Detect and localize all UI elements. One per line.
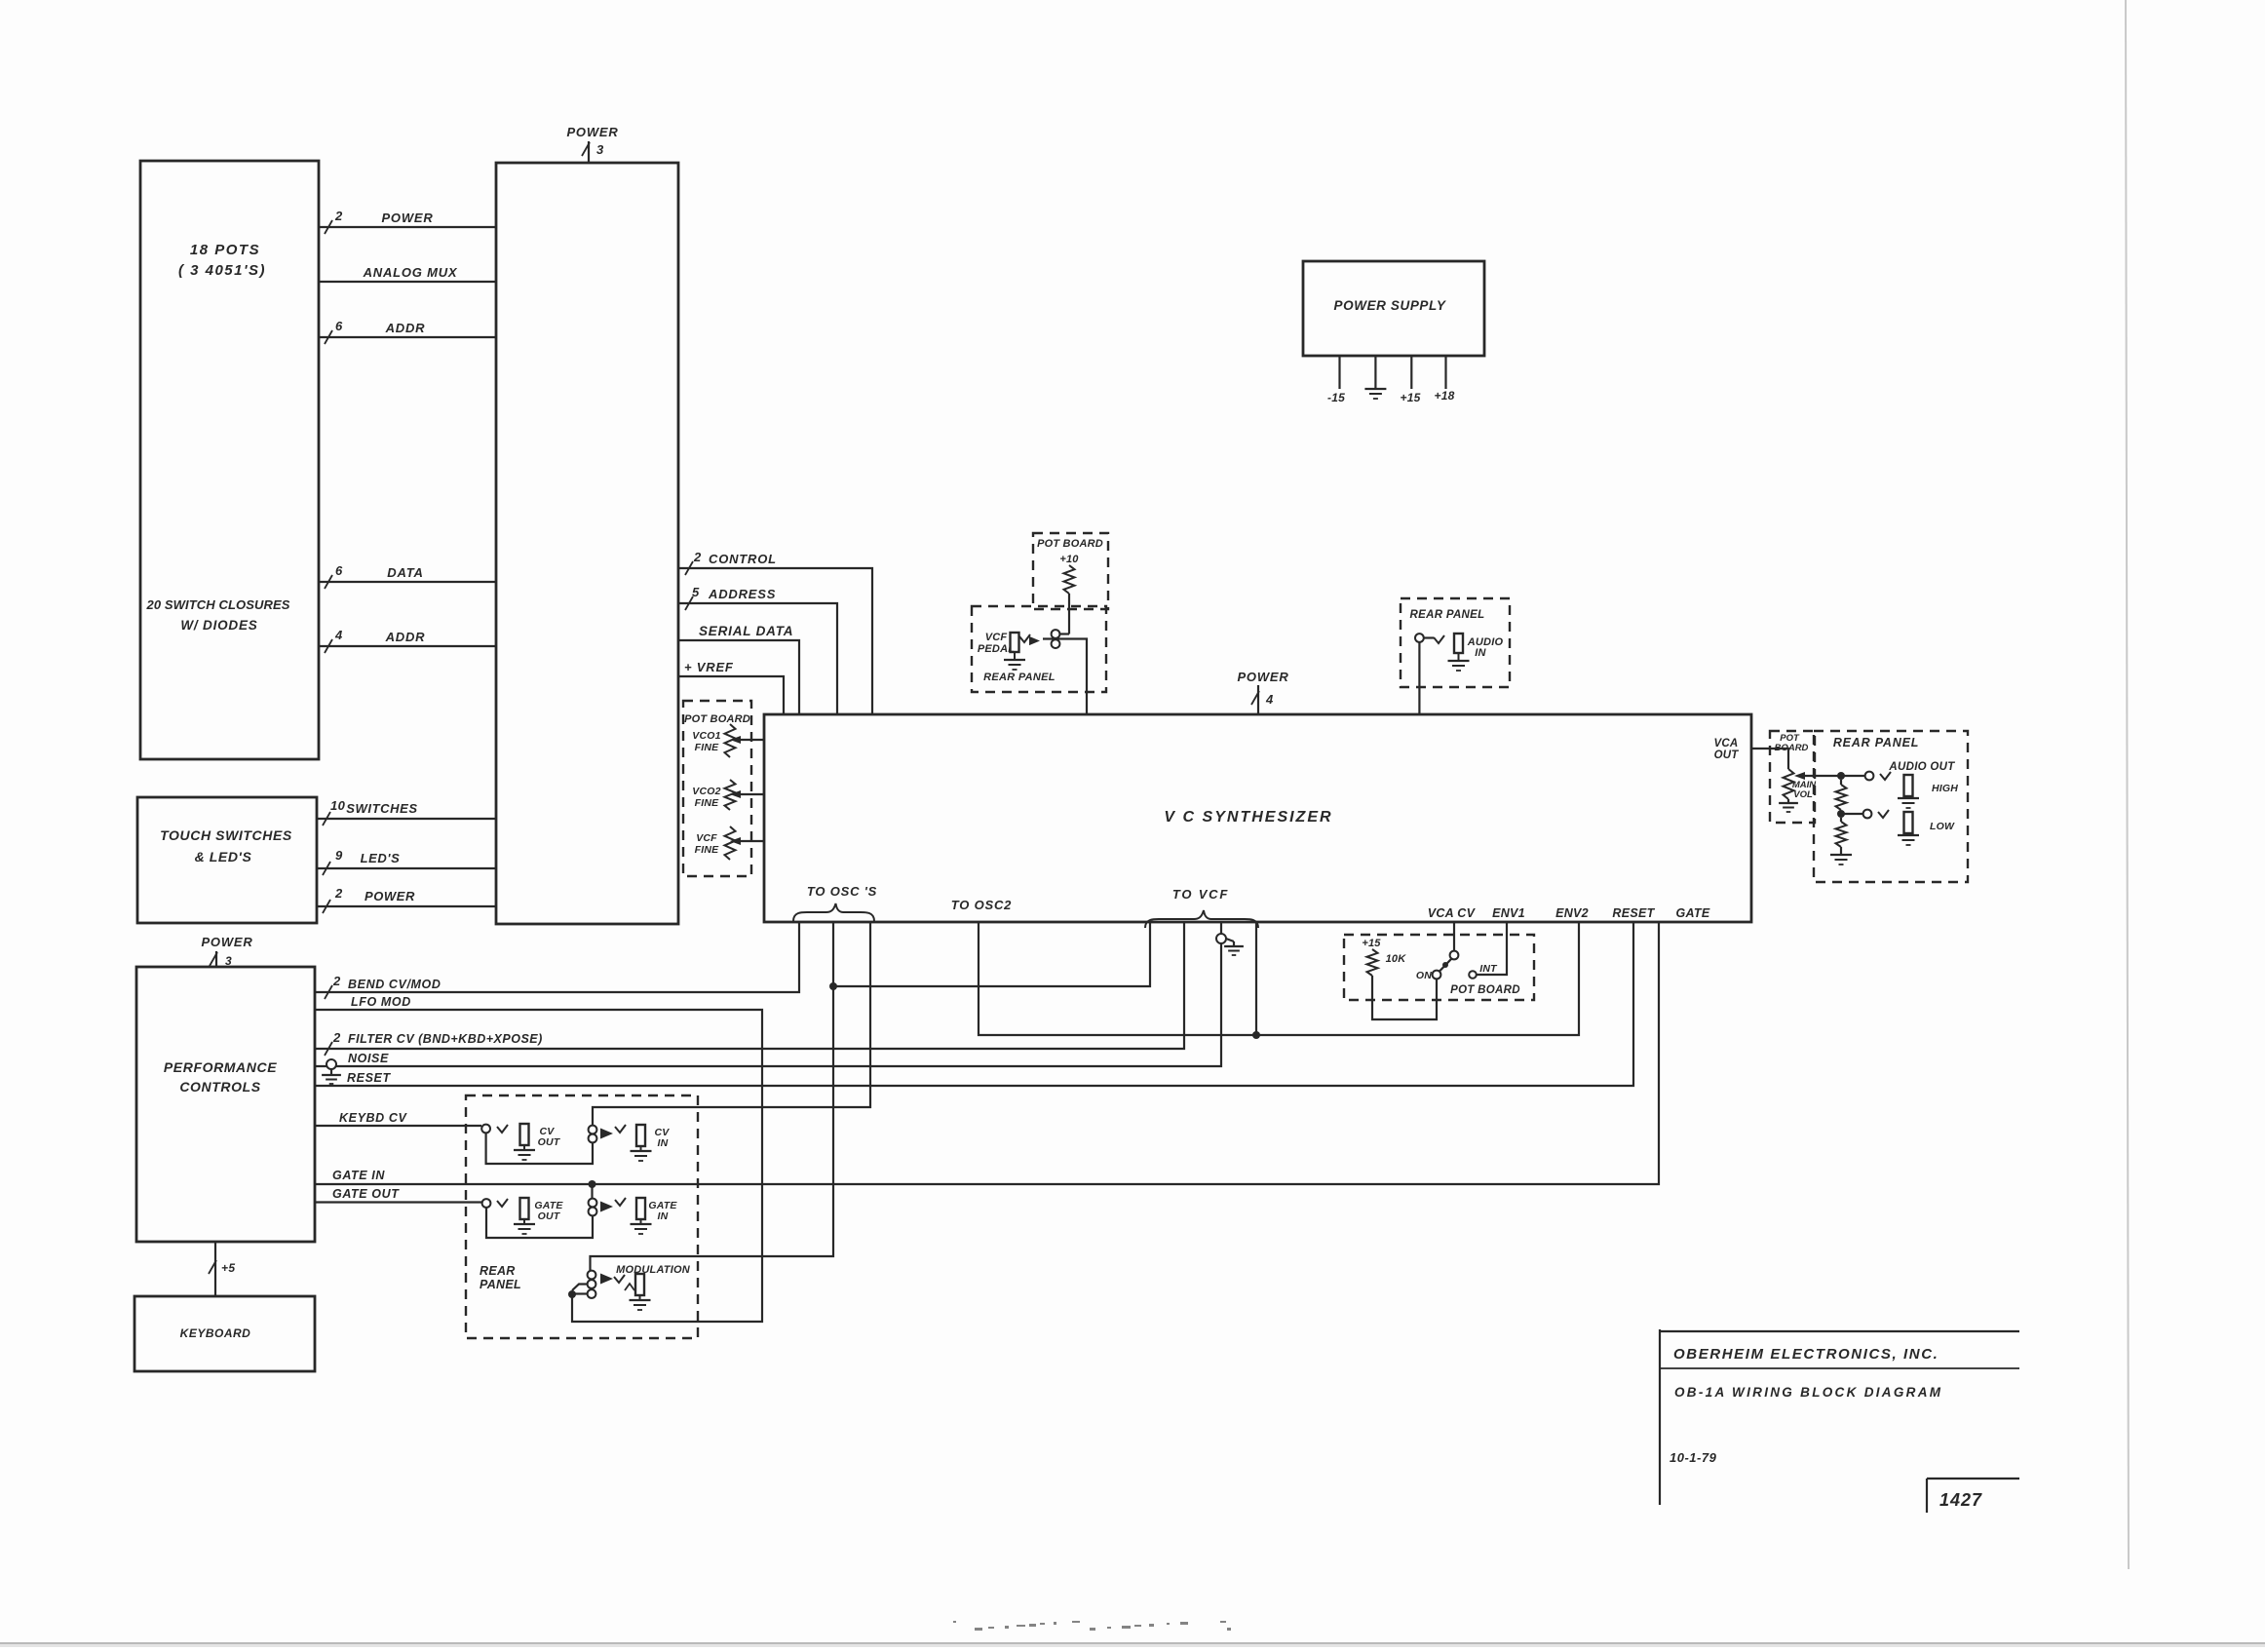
power arrow (4) on synthesizer top — [1237, 670, 1288, 714]
svg-text:2: 2 — [334, 209, 343, 223]
wire +5 performance controls to keyboard — [209, 1242, 235, 1296]
svg-text:OUT: OUT — [538, 1136, 561, 1148]
svg-text:RESET: RESET — [1612, 906, 1655, 920]
label KEYBOARD — [180, 1326, 251, 1340]
jack tip check VCF pedal — [1019, 634, 1030, 642]
jack CV IN switch contacts — [589, 1126, 597, 1143]
svg-text:10: 10 — [330, 798, 346, 813]
dashed box: pot board (main vol) — [1770, 731, 1815, 823]
jack CV OUT check — [497, 1125, 508, 1133]
wire BEND CV/MOD (2) — [315, 922, 799, 999]
wiper arrow main vol — [1794, 772, 1841, 780]
svg-text:ANALOG MUX: ANALOG MUX — [363, 265, 458, 280]
wire SWITCHES (10) to mux — [317, 798, 496, 826]
svg-text:PERFORMANCE: PERFORMANCE — [164, 1059, 277, 1075]
junction dot osc mod / to-vcf link — [829, 982, 837, 990]
jack CV OUT tip contact — [481, 1125, 490, 1133]
jack GATE IN triangle and check — [600, 1198, 626, 1211]
svg-text:+18: +18 — [1435, 389, 1455, 403]
label GATE OUT — [534, 1200, 563, 1222]
svg-text:+5: +5 — [221, 1261, 235, 1275]
svg-text:BOARD: BOARD — [1775, 743, 1809, 753]
title OB-1A WIRING BLOCK DIAGRAM — [1674, 1385, 1942, 1400]
svg-text:OB-1A WIRING BLOCK DIAGRAM: OB-1A WIRING BLOCK DIAGRAM — [1674, 1385, 1942, 1400]
label +15 — [1362, 938, 1381, 949]
wire FILTER CV (2) — [315, 922, 1184, 1056]
pot VCO1 FINE — [692, 724, 735, 757]
svg-text:DATA: DATA — [387, 565, 423, 580]
svg-text:REAR PANEL: REAR PANEL — [983, 672, 1056, 683]
svg-text:GATE IN: GATE IN — [332, 1169, 385, 1182]
jack LOW check — [1878, 810, 1889, 818]
svg-text:ON: ON — [1416, 970, 1432, 981]
jack tip contact audio in — [1415, 634, 1424, 642]
resistor from +10 — [1060, 565, 1075, 634]
jack CV OUT — [514, 1124, 535, 1160]
svg-text:ADDRESS: ADDRESS — [708, 587, 776, 601]
svg-text:W/ DIODES: W/ DIODES — [180, 618, 257, 633]
jack GATE IN — [631, 1198, 652, 1234]
bottom scan band — [0, 1643, 2265, 1647]
wire arrow synth to VCO1 FINE — [730, 736, 764, 744]
wire audio in jack to synth — [1418, 642, 1420, 714]
pot VCO2 FINE — [692, 780, 735, 810]
svg-text:6: 6 — [335, 319, 343, 333]
title date 10-1-79 — [1670, 1450, 1717, 1465]
svg-text:10-1-79: 10-1-79 — [1670, 1450, 1717, 1465]
wire INT contact to ENV1 — [1477, 922, 1507, 975]
label (3 4051'S) — [178, 262, 266, 279]
svg-text:AUDIO OUT: AUDIO OUT — [1888, 761, 1955, 773]
block: 18 pots / 20 switch closures panel — [140, 161, 319, 759]
label REAR PANEL (audio out) — [1833, 736, 1919, 749]
label MODULATION — [616, 1264, 691, 1276]
block: mux/computer board — [496, 163, 678, 924]
svg-text:KEYBOARD: KEYBOARD — [180, 1326, 251, 1340]
label MAIN VOL — [1792, 780, 1817, 800]
wire NOISE with shield — [315, 922, 1221, 1084]
jack GATE OUT — [514, 1198, 535, 1234]
junction dot ENV2 to VCF — [1252, 1031, 1260, 1039]
junction dot modulation switch — [568, 1290, 576, 1298]
svg-text:GATE OUT: GATE OUT — [332, 1187, 400, 1201]
pin label ENV2 — [1555, 906, 1589, 920]
wire CV OUT to CV IN switch — [486, 1133, 593, 1164]
wire modulation switch contact link — [572, 1285, 588, 1294]
wire to VCF input 4 — [1255, 922, 1257, 1035]
jack CV IN triangle and check — [600, 1125, 626, 1138]
jack AUDIO IN — [1448, 634, 1470, 671]
svg-text:2: 2 — [334, 886, 343, 901]
label 20 SWITCH CLOSURES — [146, 597, 290, 612]
pin label VCA CV — [1428, 906, 1477, 920]
label CV OUT — [538, 1126, 561, 1148]
svg-text:VCA: VCA — [1714, 738, 1739, 749]
label & LED'S — [195, 849, 252, 864]
svg-text:3: 3 — [596, 142, 604, 157]
svg-text:+15: +15 — [1401, 391, 1421, 404]
svg-text:TO VCF: TO VCF — [1172, 887, 1229, 902]
jack LOW tip contact — [1863, 810, 1872, 819]
svg-text:IN: IN — [658, 1137, 669, 1149]
jack HIGH tip contact — [1865, 772, 1874, 781]
svg-text:REAR: REAR — [480, 1264, 516, 1278]
wire arrow synth to VCF FINE — [730, 837, 764, 845]
label VCA OUT — [1714, 738, 1740, 761]
drawing number 1427 — [1939, 1490, 1982, 1510]
jack HIGH — [1898, 775, 1919, 808]
svg-text:HIGH: HIGH — [1932, 783, 1958, 794]
svg-text:+15: +15 — [1362, 938, 1381, 949]
svg-text:OBERHEIM ELECTRONICS, INC.: OBERHEIM ELECTRONICS, INC. — [1673, 1346, 1939, 1363]
squiggle modulation — [625, 1284, 634, 1290]
wire KEYBD CV — [315, 1111, 481, 1126]
svg-text:5: 5 — [692, 585, 700, 599]
wire VCA CV from synth — [1453, 922, 1455, 951]
svg-text:IN: IN — [1475, 647, 1486, 659]
dashed box: rear panel audio out — [1814, 731, 1968, 882]
pin label GATE — [1676, 906, 1710, 920]
svg-text:REAR PANEL: REAR PANEL — [1410, 609, 1485, 621]
shield contact on noise line at synth — [1216, 934, 1244, 955]
jack HIGH check — [1880, 772, 1891, 780]
switch contact INT — [1469, 963, 1498, 979]
junction dot divider mid — [1837, 810, 1845, 818]
svg-text:+ VREF: + VREF — [684, 660, 734, 674]
wire VCA OUT to volume pot — [1751, 749, 1788, 769]
svg-text:LOW: LOW — [1930, 821, 1955, 832]
jack GATE OUT tip contact — [482, 1199, 491, 1208]
label LOW — [1930, 821, 1955, 832]
wire LED'S (9) to mux — [317, 848, 496, 875]
svg-text:CONTROL: CONTROL — [709, 552, 777, 566]
block: touch switches and LEDs — [137, 797, 317, 923]
svg-text:POWER: POWER — [1237, 670, 1288, 684]
svg-text:TO OSC 'S: TO OSC 'S — [807, 884, 877, 899]
label CONTROLS — [179, 1079, 260, 1095]
label CV IN — [655, 1127, 671, 1149]
dashed box: pot board +10 — [1033, 533, 1108, 609]
svg-text:ADDR: ADDR — [385, 630, 426, 644]
svg-text:ADDR: ADDR — [385, 321, 426, 335]
label +10 — [1059, 554, 1079, 565]
wire ON contact to 10K — [1372, 976, 1437, 1019]
label POWER SUPPLY — [1334, 298, 1447, 313]
jack MODULATION contacts — [588, 1271, 596, 1298]
wire DATA (6) — [319, 563, 496, 589]
dashed box: rear panel audio in — [1401, 598, 1510, 687]
wire RESET — [315, 922, 1633, 1086]
svg-text:CONTROLS: CONTROLS — [179, 1079, 260, 1095]
svg-text:VCA CV: VCA CV — [1428, 906, 1477, 920]
svg-text:FINE: FINE — [695, 844, 720, 856]
svg-text:IN: IN — [658, 1210, 669, 1222]
svg-text:POT BOARD: POT BOARD — [1037, 538, 1103, 550]
label HIGH — [1932, 783, 1958, 794]
wire POWER (2) to mux — [317, 886, 496, 913]
label REAR PANEL (jacks) — [480, 1264, 521, 1291]
wire arrow synth to VCO2 FINE — [730, 790, 764, 798]
svg-text:POWER SUPPLY: POWER SUPPLY — [1334, 298, 1447, 313]
svg-text:RESET: RESET — [347, 1071, 391, 1085]
svg-text:FILTER CV (BND+KBD+XPOSE): FILTER CV (BND+KBD+XPOSE) — [348, 1032, 543, 1046]
pot VCF FINE — [695, 826, 736, 860]
svg-text:KEYBD CV: KEYBD CV — [339, 1111, 407, 1125]
dashed box: rear panel jacks — [466, 1095, 698, 1338]
svg-text:ENV2: ENV2 — [1555, 906, 1589, 920]
svg-text:BEND CV/MOD: BEND CV/MOD — [348, 978, 441, 991]
svg-text:POWER: POWER — [381, 211, 433, 225]
scanner noise specks — [953, 1621, 1231, 1631]
wire POWER (2) pots to mux — [319, 209, 496, 234]
wire +VREF mux to synth — [678, 660, 784, 714]
svg-text:POT BOARD: POT BOARD — [1450, 984, 1520, 996]
svg-text:4: 4 — [1265, 692, 1274, 707]
junction dot gate in to jack — [589, 1180, 596, 1188]
title OBERHEIM ELECTRONICS, INC. — [1673, 1346, 1939, 1363]
svg-text:TO OSC2: TO OSC2 — [951, 898, 1012, 912]
svg-text:VCO1: VCO1 — [692, 730, 720, 742]
svg-text:VCF: VCF — [985, 632, 1008, 643]
power arrow above performance controls — [201, 935, 252, 968]
label GATE IN — [648, 1200, 677, 1222]
switch lever — [1440, 959, 1452, 972]
svg-text:& LED'S: & LED'S — [195, 849, 252, 864]
block: performance controls — [136, 967, 315, 1242]
svg-text:LFO MOD: LFO MOD — [351, 995, 411, 1009]
divider resistor upper — [1836, 780, 1847, 810]
svg-text:6: 6 — [335, 563, 343, 578]
label POT BOARD (+10) — [1037, 538, 1103, 550]
svg-text:POWER: POWER — [566, 125, 618, 139]
power supply pin -15 — [1327, 356, 1345, 404]
divider resistor lower — [1830, 818, 1852, 864]
svg-text:+10: +10 — [1059, 554, 1079, 565]
svg-text:OUT: OUT — [1714, 749, 1740, 761]
wire GATE OUT — [315, 1187, 482, 1203]
svg-text:POWER: POWER — [365, 889, 415, 903]
wire SERIAL DATA mux to synth — [678, 624, 799, 714]
label PERFORMANCE — [164, 1059, 277, 1075]
svg-text:V C SYNTHESIZER: V C SYNTHESIZER — [1164, 809, 1332, 826]
jack GATE OUT check — [497, 1199, 508, 1207]
pin label RESET — [1612, 906, 1655, 920]
svg-text:1427: 1427 — [1939, 1490, 1982, 1510]
svg-text:VCO2: VCO2 — [692, 786, 720, 797]
pin label ENV1 — [1492, 906, 1525, 920]
brace TO OSC'S — [793, 884, 877, 921]
svg-text:4: 4 — [334, 628, 343, 642]
wire LFO MOD — [315, 995, 762, 1322]
label VCF PEDAL — [978, 632, 1015, 655]
svg-text:10K: 10K — [1386, 953, 1407, 965]
label POT BOARD (main vol) — [1775, 733, 1809, 753]
svg-text:GATE: GATE — [1676, 906, 1710, 920]
svg-text:MODULATION: MODULATION — [616, 1264, 691, 1276]
label TOUCH SWITCHES — [160, 827, 292, 843]
svg-text:POT BOARD: POT BOARD — [684, 713, 750, 725]
jack MODULATION — [630, 1274, 651, 1310]
svg-text:PANEL: PANEL — [480, 1278, 521, 1291]
wire ADDR (6) — [319, 319, 496, 344]
svg-text:LED'S: LED'S — [361, 851, 401, 865]
svg-text:POWER: POWER — [201, 935, 252, 949]
svg-text:FINE: FINE — [695, 742, 720, 753]
wire ENV2 to OSC2 and VCF — [979, 922, 1579, 1035]
title block border — [1660, 1329, 2019, 1505]
power supply pin +15 — [1401, 356, 1421, 404]
label V C SYNTHESIZER — [1164, 809, 1332, 826]
label POT BOARD — [684, 713, 750, 725]
wire divider to LOW jack — [1841, 813, 1863, 815]
wire ANALOG MUX — [319, 265, 496, 282]
jack switch contacts VCF pedal — [1052, 630, 1060, 648]
switch contact NC (vca cv) — [1450, 951, 1459, 960]
svg-text:ENV1: ENV1 — [1492, 906, 1525, 920]
wire VCF pedal to synth — [1043, 639, 1087, 715]
svg-text:REAR PANEL: REAR PANEL — [1833, 736, 1919, 749]
wire ADDR (4) — [319, 628, 496, 653]
svg-text:( 3 4051'S): ( 3 4051'S) — [178, 262, 266, 279]
label REAR PANEL (audio in) — [1410, 609, 1485, 621]
dashed box: rear panel VCF pedal — [972, 606, 1106, 692]
svg-text:20 SWITCH CLOSURES: 20 SWITCH CLOSURES — [146, 597, 290, 612]
jack GATE IN switch contacts — [589, 1199, 597, 1216]
block: keyboard — [134, 1296, 315, 1371]
label AUDIO OUT — [1888, 761, 1955, 773]
wire CONTROL (2) mux to synth — [678, 550, 872, 714]
wire to VCF input 1 — [833, 922, 1150, 986]
dashed box: pot board (fine pots) — [683, 701, 751, 876]
block: power supply — [1303, 261, 1484, 356]
block: VC synthesizer — [764, 714, 1751, 922]
wire modulation jack to oscillators — [591, 922, 834, 1271]
jack CV IN — [631, 1125, 652, 1161]
svg-text:3: 3 — [225, 954, 232, 968]
wire ADDRESS (5) mux to synth — [678, 585, 837, 714]
junction dot wiper to jacks — [1837, 772, 1845, 780]
svg-text:2: 2 — [332, 974, 341, 988]
svg-text:VOL: VOL — [1793, 789, 1813, 800]
wire CV IN jack to oscillators — [593, 922, 870, 1126]
jack MODULATION triangle and check — [600, 1274, 625, 1285]
power supply pin +18 — [1435, 356, 1455, 403]
paper edge line — [2126, 0, 2129, 1569]
label REAR PANEL (vcf pedal) — [983, 672, 1056, 683]
svg-text:VCF: VCF — [696, 832, 717, 844]
power arrow at top of mux board — [566, 125, 618, 163]
label W/ DIODES — [180, 618, 257, 633]
drawing number box — [1927, 1479, 2019, 1513]
svg-text:OUT: OUT — [538, 1210, 561, 1222]
label AUDIO IN — [1467, 636, 1504, 659]
svg-text:SERIAL DATA: SERIAL DATA — [699, 624, 793, 638]
wire GATE IN — [315, 922, 1659, 1184]
label POT BOARD (switch) — [1450, 984, 1520, 996]
wire wiper to HIGH jack — [1841, 775, 1865, 777]
svg-text:18 POTS: 18 POTS — [190, 242, 260, 258]
power supply ground pin — [1364, 356, 1386, 399]
pot MAIN VOL — [1779, 769, 1798, 812]
label 18 POTS — [190, 242, 260, 258]
jack switch triangle VCF pedal — [1029, 636, 1040, 645]
svg-text:NOISE: NOISE — [348, 1052, 389, 1065]
svg-text:-15: -15 — [1327, 391, 1345, 404]
resistor 10K — [1367, 949, 1407, 976]
wire GATE OUT to GATE IN switch — [486, 1208, 593, 1238]
dashed box: pot board (vca cv switch) — [1344, 935, 1534, 1000]
svg-text:9: 9 — [335, 848, 343, 863]
svg-text:2: 2 — [332, 1030, 341, 1045]
label TO OSC2 — [951, 898, 1012, 912]
jack tip check audio in — [1424, 635, 1444, 643]
svg-text:SWITCHES: SWITCHES — [346, 801, 417, 816]
brace TO VCF — [1145, 887, 1258, 928]
svg-text:TOUCH SWITCHES: TOUCH SWITCHES — [160, 827, 292, 843]
switch contact ON — [1416, 970, 1440, 981]
svg-text:2: 2 — [693, 550, 702, 564]
svg-text:FINE: FINE — [695, 797, 720, 809]
wire gate in jack riser — [591, 1184, 593, 1199]
jack LOW — [1898, 812, 1919, 845]
jack VCF PEDAL — [1004, 633, 1025, 670]
svg-text:INT: INT — [1479, 963, 1498, 975]
